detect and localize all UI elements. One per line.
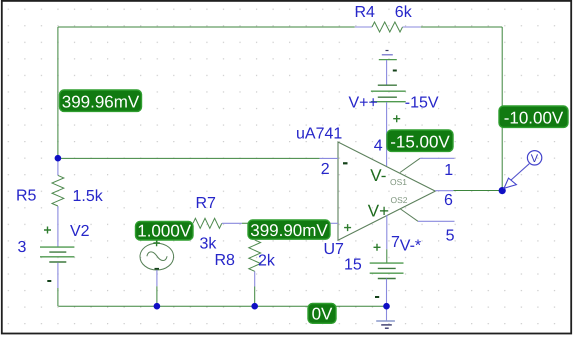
svg-text:V++: V++: [349, 95, 378, 112]
svg-text:-15.00V: -15.00V: [390, 132, 450, 151]
svg-text:1.5k: 1.5k: [73, 188, 104, 205]
wire top horizontal from corner to R4 left lead: [58, 26, 355, 28]
wire left vertical from inverting-input node up to top-left corner: [57, 27, 59, 158]
node voltage label -10.00V: [499, 106, 568, 127]
top battery minus mark: [393, 70, 397, 72]
svg-text:OS2: OS2: [391, 195, 408, 205]
junction node battery ground: [383, 303, 390, 310]
svg-text:1: 1: [444, 162, 453, 179]
V2 minus mark: [47, 280, 51, 282]
wire inverting input horizontal to op-amp pin 2: [58, 157, 320, 159]
junction node output: [499, 187, 506, 194]
resistor R7: [193, 218, 242, 228]
battery plates: [378, 84, 397, 86]
node voltage label 399.96mV: [60, 90, 142, 111]
wire op-amp output to node: [453, 190, 502, 192]
bottom battery plus mark: [374, 244, 381, 251]
svg-text:-15V: -15V: [405, 95, 439, 112]
resistor R4: [355, 22, 421, 32]
svg-text:V2: V2: [70, 223, 90, 240]
svg-text:V+: V+: [368, 202, 389, 221]
svg-text:uA741: uA741: [296, 126, 342, 143]
wire noninverting net from R7 to op-amp pin 3: [242, 222, 331, 224]
node voltage label 399.90mV: [248, 220, 330, 240]
svg-text:3k: 3k: [200, 236, 218, 253]
AC source VSIN: [140, 243, 174, 306]
positive supply battery 15: [370, 215, 404, 306]
svg-text:6k: 6k: [395, 4, 413, 21]
svg-text:399.90mV: 399.90mV: [250, 221, 328, 240]
resistor R5: [52, 158, 64, 246]
svg-text:3: 3: [18, 239, 27, 256]
svg-text:7: 7: [391, 234, 400, 251]
wire from R4 right lead to top-right corner: [421, 26, 503, 28]
svg-text:-10.00V: -10.00V: [504, 108, 564, 127]
svg-text:V: V: [531, 153, 539, 165]
AC minus mark: [155, 268, 160, 270]
voltage probe V: [504, 151, 542, 189]
svg-text:OS1: OS1: [390, 177, 407, 187]
noninverting input plus mark: [344, 224, 351, 231]
node voltage label -15.00V: [387, 130, 453, 151]
junction node R8 bottom: [251, 303, 258, 310]
svg-text:2: 2: [321, 161, 330, 178]
bottom battery minus mark: [375, 296, 379, 298]
AC plus mark: [153, 240, 159, 246]
junction node AC source bottom: [154, 303, 161, 310]
svg-text:R4: R4: [355, 4, 376, 21]
inverting input minus mark: [343, 162, 348, 164]
svg-text:R8: R8: [215, 252, 236, 269]
op-amp U7 uA741: [320, 142, 455, 240]
V2 plus mark: [44, 227, 51, 234]
svg-text:R7: R7: [196, 195, 217, 212]
battery V2: [40, 247, 74, 306]
wire right vertical down to output node: [501, 27, 503, 191]
svg-text:U7: U7: [324, 241, 345, 258]
wire AC source top stub: [156, 240, 158, 244]
resistor R8: [249, 240, 261, 306]
svg-text:15: 15: [344, 257, 362, 274]
svg-text:399.96mV: 399.96mV: [62, 92, 140, 111]
junction node inverting input: [55, 155, 62, 162]
ground bottom: [376, 306, 395, 328]
svg-text:V-*: V-*: [400, 238, 421, 255]
svg-text:1.000V: 1.000V: [137, 221, 192, 240]
node voltage label 1.000V: [136, 221, 194, 240]
top battery plus mark: [393, 115, 400, 122]
svg-text:V-: V-: [370, 166, 386, 185]
svg-text:5: 5: [446, 228, 455, 245]
svg-text:4: 4: [374, 138, 383, 155]
svg-text:2k: 2k: [258, 253, 276, 270]
node voltage label 0V: [308, 304, 336, 324]
wire bottom ground rail: [58, 305, 386, 307]
svg-text:0V: 0V: [312, 305, 333, 324]
svg-text:6: 6: [444, 192, 453, 209]
negative supply battery -15V with top ground: [379, 51, 397, 86]
svg-text:R5: R5: [16, 188, 37, 205]
ground top: [386, 50, 389, 52]
